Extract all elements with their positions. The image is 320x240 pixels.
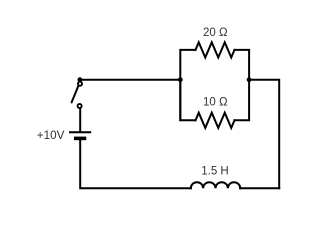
- battery V1 positive plate: [69, 131, 91, 133]
- resistor R2 10ohm: [196, 113, 235, 128]
- wire bottom right to inductor: [240, 187, 279, 189]
- wire top-right of parallel box: [235, 50, 250, 80]
- resistor R1 20ohm: [196, 42, 235, 57]
- wire bottom-right of parallel box: [235, 80, 250, 121]
- wire left side of parallel box: [180, 50, 195, 120]
- switch SW1 lever: [72, 86, 79, 102]
- node B junction dot: [247, 77, 252, 82]
- wire bottom-left of parallel box: [180, 80, 195, 121]
- wire bottom left from inductor to corner: [80, 140, 191, 188]
- svg-text:+10V: +10V: [37, 129, 65, 142]
- wire top horizontal from switch to node A: [80, 79, 180, 81]
- switch SW1 top terminal: [78, 82, 82, 86]
- wire battery to switch: [79, 109, 81, 133]
- node A junction dot: [178, 77, 183, 82]
- wire node B to right rail: [249, 80, 279, 189]
- switch SW1 bottom terminal: [78, 104, 82, 108]
- inductor L1 1.5H: [191, 182, 240, 188]
- svg-text:20 Ω: 20 Ω: [203, 27, 228, 39]
- svg-text:10 Ω: 10 Ω: [203, 97, 228, 109]
- battery V1 negative plate: [74, 137, 86, 141]
- junction dot at switch top: [78, 77, 83, 82]
- svg-text:1.5 H: 1.5 H: [201, 166, 229, 178]
